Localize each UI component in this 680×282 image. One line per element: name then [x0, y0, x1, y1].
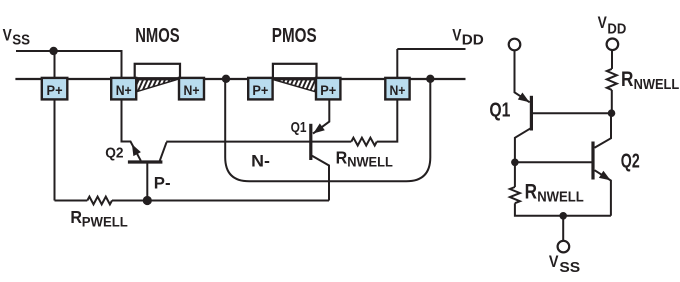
- transistor Q1 emitter arrow (right): [518, 93, 530, 103]
- PMOS channel hatch: [260, 75, 335, 95]
- N+ NMOS drain box: [179, 78, 204, 100]
- svg-text:Q1: Q1: [489, 99, 510, 121]
- label VDD left: [452, 26, 484, 48]
- PMOS gate electrode: [273, 64, 317, 78]
- label RNWELL left: [336, 147, 393, 169]
- svg-text:V: V: [549, 252, 559, 271]
- junction dot N-well right: [426, 75, 434, 83]
- label NMOS: [135, 25, 179, 47]
- junction dot substrate node: [143, 196, 152, 205]
- junction dot N-well left: [222, 75, 230, 83]
- svg-text:V: V: [3, 26, 12, 44]
- svg-text:NMOS: NMOS: [135, 25, 179, 47]
- junction dot Q2 collector node: [608, 109, 616, 117]
- substrate surface line: [15, 78, 465, 80]
- svg-text:DD: DD: [462, 33, 484, 49]
- label RNWELL upper: [621, 68, 679, 93]
- svg-text:N+: N+: [389, 83, 405, 98]
- svg-text:N+: N+: [116, 83, 132, 98]
- transistor Q2 base bar: [128, 160, 162, 163]
- svg-text:P+: P+: [252, 83, 268, 98]
- label VSS: [3, 26, 31, 48]
- svg-text:SS: SS: [559, 259, 580, 276]
- svg-text:NWELL: NWELL: [537, 189, 584, 205]
- svg-text:N+: N+: [184, 83, 200, 98]
- svg-text:V: V: [598, 14, 607, 32]
- label Q2 right: [621, 150, 640, 172]
- N-well boundary outline: [225, 79, 430, 181]
- label Q1 right: [489, 99, 510, 121]
- label VDD right: [598, 14, 627, 37]
- svg-text:R: R: [525, 180, 537, 203]
- N+ well tap box: [385, 78, 409, 100]
- label Q1 left: [291, 119, 307, 136]
- wire RNWELL lower to VSS rail: [515, 203, 611, 216]
- wire VSS tap vertical through P+: [54, 51, 56, 201]
- transistor Q1 base bar: [309, 124, 312, 160]
- label RNWELL lower: [525, 180, 584, 205]
- transistor Q1 emitter arrow: [313, 123, 325, 133]
- svg-text:DD: DD: [607, 21, 626, 37]
- svg-text:NWELL: NWELL: [634, 77, 680, 93]
- junction dot VSS node: [559, 212, 567, 220]
- label PMOS: [272, 25, 317, 47]
- transistor Q2 collector wire: [160, 142, 167, 160]
- wire RNWELL to base node: [611, 90, 613, 113]
- svg-text:SS: SS: [12, 33, 30, 49]
- svg-text:Q2: Q2: [621, 150, 640, 172]
- terminal Q1 emitter: [509, 39, 521, 51]
- NMOS gate electrode: [135, 64, 180, 78]
- svg-text:V: V: [452, 26, 461, 44]
- transistor Q2 emitter wire (right): [595, 170, 611, 216]
- resistor RNWELL lower: [510, 187, 520, 203]
- svg-text:N-: N-: [251, 151, 270, 170]
- transistor Q2 collector wire (right): [595, 113, 612, 148]
- junction dot VSS tap: [49, 47, 57, 55]
- NMOS channel hatch: [123, 75, 194, 95]
- wire Q1 collector to Q2 base: [515, 161, 592, 163]
- transistor Q2 emitter arrow: [132, 144, 141, 156]
- P+ PMOS drain box: [316, 78, 340, 100]
- junction dot latch node: [511, 159, 519, 167]
- label N-: [251, 151, 270, 170]
- resistor RPWELL: [87, 197, 112, 205]
- N+ NMOS source box: [111, 78, 136, 100]
- wire Q1 base: [533, 112, 612, 114]
- terminal VDD: [607, 39, 619, 51]
- label Q2 left: [105, 145, 123, 162]
- svg-text:Q1: Q1: [291, 119, 307, 136]
- svg-text:PMOS: PMOS: [272, 25, 317, 47]
- terminal VSS: [558, 241, 570, 253]
- svg-text:R: R: [70, 207, 82, 227]
- P+ PMOS source box: [248, 78, 272, 100]
- wire VSS rail to NMOS source: [16, 51, 122, 78]
- transistor Q1 base bar (right): [530, 96, 533, 131]
- svg-text:PWELL: PWELL: [82, 214, 128, 229]
- svg-text:NWELL: NWELL: [347, 154, 393, 169]
- transistor Q1 emitter wire: [313, 100, 329, 134]
- transistor Q2 base wire to substrate: [146, 164, 148, 201]
- transistor Q2 emitter arrow (right): [599, 171, 611, 181]
- svg-text:R: R: [336, 147, 348, 167]
- wire Q2 collector to RNWELL: [166, 141, 351, 143]
- wire latch node to RNWELL lower: [514, 162, 516, 187]
- svg-text:P+: P+: [320, 83, 336, 98]
- resistor RNWELL (cross-section): [351, 138, 377, 146]
- label P-: [154, 173, 171, 192]
- svg-text:P+: P+: [47, 83, 63, 98]
- transistor Q2 emitter wire: [122, 100, 141, 161]
- label VSS right: [549, 252, 580, 276]
- transistor Q1 collector wire: [312, 156, 329, 201]
- transistor Q1 emitter wire (right): [515, 50, 530, 102]
- svg-text:Q2: Q2: [105, 145, 123, 162]
- resistor RNWELL upper: [607, 69, 617, 90]
- wire substrate P- node: [55, 200, 330, 202]
- transistor Q2 base bar (right): [591, 142, 594, 180]
- wire VSS stub: [562, 216, 564, 241]
- svg-text:P-: P-: [154, 173, 171, 192]
- wire VDD rail: [397, 49, 465, 78]
- wire RNWELL to N+ well tap: [377, 100, 398, 142]
- label RPWELL: [70, 207, 127, 229]
- svg-text:R: R: [621, 68, 633, 91]
- P+ substrate tap box: [42, 78, 68, 100]
- wire VDD to RNWELL: [611, 50, 613, 69]
- transistor Q1 collector wire (right): [515, 128, 531, 162]
